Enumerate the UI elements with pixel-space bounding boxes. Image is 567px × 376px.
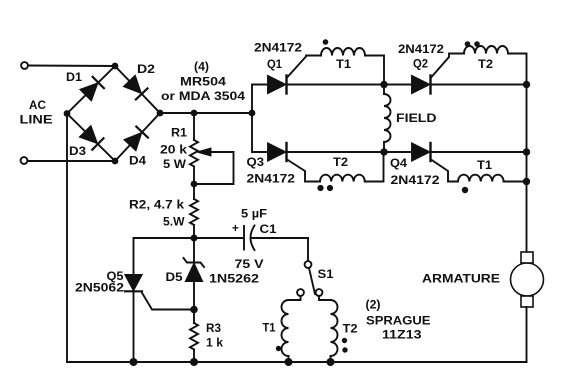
thyristor Q5 <box>125 275 194 362</box>
svg-text:D3: D3 <box>69 145 87 158</box>
svg-text:LINE: LINE <box>20 114 53 127</box>
R1 wiper arrow <box>194 149 234 184</box>
node Q2 cathode <box>523 81 530 88</box>
svg-text:(2): (2) <box>366 299 381 312</box>
resistor R3 <box>190 323 198 349</box>
wire R1 bottom lead <box>193 167 195 185</box>
svg-text:C1: C1 <box>260 223 278 236</box>
thyristor Q1 <box>252 56 384 94</box>
svg-text:5 µF: 5 µF <box>241 208 267 221</box>
wire bottom bus <box>67 361 527 363</box>
svg-text:T1: T1 <box>336 58 352 71</box>
node Q5 cathode bottom <box>130 358 138 366</box>
phase dot T1 secondary <box>323 39 329 45</box>
node D5 R3 junction <box>190 306 198 314</box>
diode D4 <box>125 127 148 150</box>
zener D5 <box>184 238 205 310</box>
svg-text:2N4172: 2N4172 <box>254 42 303 55</box>
svg-text:75 V: 75 V <box>235 258 264 271</box>
wire R3 top lead <box>193 310 195 324</box>
wire right bus <box>526 85 528 253</box>
svg-text:2N5062: 2N5062 <box>75 282 125 295</box>
svg-text:+: + <box>232 222 239 235</box>
svg-text:or MDA 3504: or MDA 3504 <box>161 90 246 103</box>
node Q1 cathode <box>380 81 387 88</box>
diode D3 <box>80 126 103 149</box>
svg-text:Q2: Q2 <box>413 58 428 71</box>
wire R3 bottom lead <box>193 350 195 362</box>
armature motor <box>511 252 544 362</box>
svg-text:2N4172: 2N4172 <box>391 174 441 187</box>
wire DC bus bridge to branch node <box>160 112 252 114</box>
transformer T2 mid winding <box>320 152 384 182</box>
phase dot T2 primary lower <box>342 347 347 352</box>
svg-text:ARMATURE: ARMATURE <box>422 272 500 286</box>
svg-text:11Z13: 11Z13 <box>382 329 422 342</box>
phase dot T1 primary <box>276 346 281 351</box>
svg-text:Q4: Q4 <box>390 157 408 170</box>
svg-text:R2, 4.7 k: R2, 4.7 k <box>129 199 185 212</box>
wire R2 bottom lead <box>193 225 195 238</box>
wire bridge arm top-right <box>115 66 160 113</box>
svg-text:SPRAGUE: SPRAGUE <box>366 315 431 328</box>
thyristor Q3 <box>252 143 384 182</box>
svg-text:D4: D4 <box>129 155 147 168</box>
diode D2 <box>124 76 147 99</box>
node R2 bottom <box>191 235 198 242</box>
transformer T1 mid winding <box>458 175 527 182</box>
thyristor Q2 <box>384 54 527 94</box>
svg-text:AC: AC <box>29 99 46 112</box>
resistor R2 <box>190 199 198 225</box>
svg-text:D5: D5 <box>166 271 184 284</box>
svg-text:T2: T2 <box>333 156 349 169</box>
svg-text:R3: R3 <box>206 322 221 335</box>
svg-text:20 k: 20 k <box>160 144 188 157</box>
node SCR branch <box>249 110 256 117</box>
wire gate rail to C1 <box>194 237 244 239</box>
node T2 primary bottom <box>327 358 335 366</box>
transformer T2 secondary (top) <box>464 46 527 84</box>
node bridge top <box>112 63 119 70</box>
wire R2 top lead <box>193 184 195 199</box>
diode D1 <box>81 77 104 100</box>
svg-text:(4): (4) <box>194 61 209 74</box>
thyristor Q4 <box>384 143 527 182</box>
transformer T2 primary <box>319 296 338 362</box>
svg-text:1N5262: 1N5262 <box>209 273 260 286</box>
node R3 bottom <box>190 358 198 366</box>
phase dot T2 secondary right <box>474 41 480 47</box>
node bridge bottom <box>112 158 119 165</box>
AC top terminal <box>21 62 28 69</box>
node T1 mid right <box>523 178 530 185</box>
transformer T1 primary <box>282 296 301 362</box>
svg-text:MR504: MR504 <box>180 76 227 89</box>
wire R1 top lead <box>193 113 195 140</box>
field winding <box>384 85 391 153</box>
svg-text:T1: T1 <box>477 159 493 172</box>
svg-text:R1: R1 <box>171 127 188 140</box>
AC bottom terminal <box>21 157 28 164</box>
svg-text:FIELD: FIELD <box>396 112 437 125</box>
wire top AC to bridge top <box>28 65 115 68</box>
node R1 bottom <box>191 181 198 188</box>
svg-text:S1: S1 <box>318 268 335 281</box>
phase dot T2 primary upper <box>342 338 347 343</box>
phase dot T1 mid <box>462 187 468 193</box>
svg-text:5 W: 5 W <box>163 158 187 171</box>
node bridge left <box>64 110 71 117</box>
svg-text:Q1: Q1 <box>267 58 282 71</box>
svg-text:D2: D2 <box>137 63 156 76</box>
node bridge right <box>157 110 164 117</box>
svg-text:2N4172: 2N4172 <box>398 43 445 56</box>
svg-text:D1: D1 <box>66 71 83 84</box>
svg-text:Q3: Q3 <box>247 156 265 169</box>
node R1 tap <box>191 110 198 117</box>
capacitor C1 <box>244 226 308 262</box>
wire bridge arm top-left <box>67 66 115 114</box>
wire bridge arm bottom-right <box>115 113 160 161</box>
wire bridge arm bottom-left <box>67 114 115 162</box>
switch S1 <box>297 261 322 296</box>
wire bottom AC to bridge bottom <box>28 160 116 162</box>
svg-text:1 k: 1 k <box>206 337 224 350</box>
resistor R1 <box>190 140 198 166</box>
phase dot T2 mid left <box>317 185 323 191</box>
svg-text:T2: T2 <box>343 323 359 336</box>
svg-text:5.W: 5.W <box>163 216 185 229</box>
phase dot T2 secondary left <box>465 41 471 47</box>
wire gate rail left <box>134 238 195 275</box>
node T1 primary bottom <box>285 358 293 366</box>
node Q4 cathode <box>523 148 530 155</box>
wire SCR branch vertical <box>251 85 253 153</box>
node field bottom <box>380 148 387 155</box>
wire left bus <box>66 114 68 363</box>
svg-text:T1: T1 <box>263 322 276 335</box>
phase dot T2 mid right <box>327 185 333 191</box>
transformer T1 secondary (top) <box>321 48 384 84</box>
svg-text:T2: T2 <box>478 58 494 71</box>
svg-text:2N4172: 2N4172 <box>247 173 296 186</box>
